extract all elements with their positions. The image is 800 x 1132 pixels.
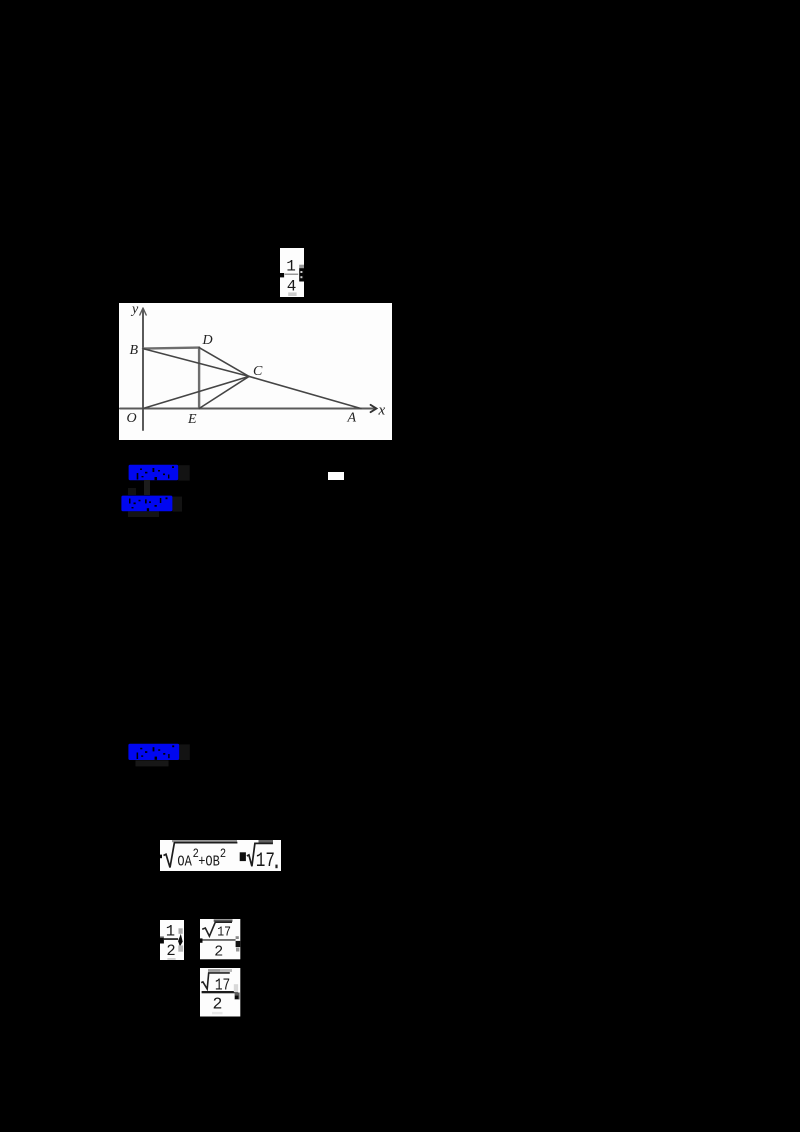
- svg-text:E: E: [187, 412, 197, 427]
- gray smudges top: [208, 969, 220, 972]
- x-axis: [120, 408, 374, 410]
- wire segment E-C: [199, 376, 249, 408]
- gray top-right block: [299, 264, 304, 267]
- dark top bar: [214, 920, 233, 922]
- svg-text:2: 2: [213, 994, 223, 1013]
- y-axis: [142, 310, 144, 430]
- svg-text:OA: OA: [177, 855, 192, 872]
- svg-text:C: C: [253, 364, 263, 379]
- fraction bar: [202, 991, 238, 993]
- black blob at left edge: [160, 938, 164, 944]
- gray strip left of bar: [160, 936, 164, 938]
- svg-text:1: 1: [166, 922, 175, 940]
- wire segment B-C: [143, 349, 249, 377]
- comma: [275, 865, 277, 869]
- blue heading 【解答】: [128, 743, 192, 769]
- svg-text:x: x: [378, 403, 386, 419]
- wire segment B-D: [143, 348, 199, 349]
- black blob left edge: [200, 939, 203, 943]
- black mark left edge: [280, 273, 284, 277]
- gray bar above first vinculum: [172, 840, 237, 842]
- svg-text:B: B: [130, 343, 139, 358]
- gray columns right: [179, 928, 183, 934]
- wire segment D-C: [199, 348, 249, 377]
- wire segment O-C: [143, 376, 249, 408]
- formula patch sqrt(17)/2 (second): [200, 968, 241, 1017]
- formula patch 1/2: [160, 920, 184, 960]
- svg-text:A: A: [347, 411, 357, 426]
- gray block above 17: [258, 840, 273, 844]
- radical: [202, 923, 232, 937]
- wire segment D-E: [198, 348, 200, 409]
- caret blob right: [178, 934, 183, 947]
- blue heading 【考点】: [128, 464, 192, 488]
- radical 1: [163, 843, 237, 868]
- svg-text:y: y: [130, 303, 139, 317]
- svg-text:2: 2: [214, 944, 223, 961]
- right marks: [236, 937, 239, 940]
- fraction 1/4 image patch: [280, 248, 304, 297]
- svg-text:O: O: [127, 411, 137, 426]
- fraction bar: [201, 939, 236, 941]
- black notch left edge: [160, 855, 162, 859]
- fraction bar: [164, 938, 178, 940]
- geometry figure image (white box): [119, 303, 392, 440]
- dark square right: [235, 992, 240, 999]
- fraction bar gray: [284, 273, 298, 275]
- bottom smear: [212, 1011, 223, 1013]
- artifact tail below heading 1: [144, 480, 150, 495]
- svg-text:17: 17: [217, 924, 231, 940]
- formula patch sqrt(17)/2 (first): [200, 919, 241, 960]
- right gray column: [234, 984, 238, 992]
- white dash patch: [328, 472, 344, 480]
- svg-text:2: 2: [166, 942, 175, 960]
- radical: [201, 972, 230, 988]
- right edge black blob: [299, 268, 304, 281]
- radical 2: [246, 844, 272, 867]
- OA^2+OB^2: [177, 846, 226, 871]
- svg-text:+OB: +OB: [198, 855, 220, 872]
- bottom gray smear: [167, 958, 175, 960]
- wire segment C-A: [249, 376, 361, 408]
- svg-text:D: D: [202, 333, 213, 348]
- formula patch sqrt(OA^2+OB^2)=sqrt(17): [160, 840, 281, 871]
- equals blob: [239, 852, 245, 861]
- svg-text:17: 17: [255, 851, 274, 871]
- svg-text:2: 2: [219, 846, 225, 861]
- svg-text:1: 1: [286, 257, 296, 275]
- blue heading 【分析】: [121, 495, 185, 519]
- gray bottom smear: [288, 292, 296, 296]
